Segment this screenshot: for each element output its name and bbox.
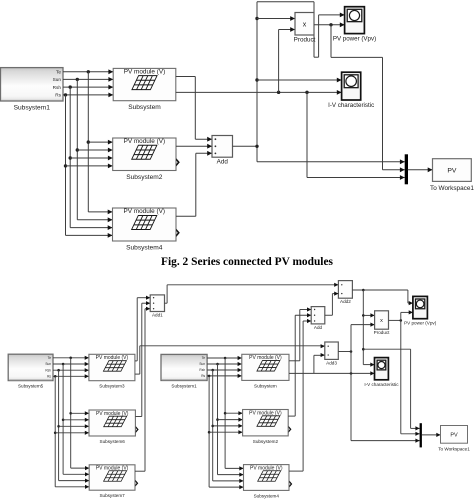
svg-text:Subsystem6: Subsystem6 [100,439,126,444]
wire Add2 output trunk with branches [352,289,413,367]
unconnected out2 port of Subsystem2 [176,158,180,166]
svg-text:I-V characteristic: I-V characteristic [364,382,399,387]
unconnected out2 port of Subsystem2 (lower) [289,426,292,433]
PV module subsystem block Subsystem4 (lower) [244,465,290,499]
source subsystem block Subsystem1 (lower) [161,354,207,388]
wire Subsystem1 out2 to PV modules [63,77,113,222]
svg-text:Product: Product [294,37,316,44]
svg-text:Subsystem4: Subsystem4 [254,493,280,498]
svg-text:Subsystem3: Subsystem3 [99,384,125,389]
product block Product (lower) [374,311,391,335]
wire Mux1 output to To Workspace1 (lower) [422,433,441,437]
wire Subsystem1 out1 to PV modules [63,69,113,214]
svg-text:Rsh: Rsh [53,85,62,90]
wire Subsystem7 out1 to Add1 in3 [135,307,150,472]
svg-text:PV module (V): PV module (V) [124,69,166,76]
svg-text:Fig. 2 Series connected PV mod: Fig. 2 Series connected PV modules [161,256,333,268]
wire Subsystem4 (lower) out1 to Add in3 [289,319,311,471]
svg-text:Add: Add [314,325,323,330]
sum block Add [212,136,233,166]
svg-text:Rsh: Rsh [45,368,51,372]
wire Mux output to To Workspace1 [408,167,433,172]
svg-text:Add3: Add3 [326,360,337,365]
unconnected out2 port of Subsystem4 (lower) [289,481,292,488]
wire Subsystem1 (lower) out1 to right PV modules [207,356,243,471]
svg-text:PV: PV [450,433,458,439]
svg-text:Subsystem5: Subsystem5 [18,384,44,389]
svg-text:Add: Add [217,159,229,166]
svg-text:Te: Te [48,356,52,360]
sum block Add1 [150,295,164,318]
unconnected out2 port of Subsystem6 [136,426,139,433]
wire Subsystem2 out1 to Add in2 [176,144,212,149]
wire branch down to Mux in3 [307,92,405,180]
svg-text:Add2: Add2 [340,299,351,304]
svg-text:Sun: Sun [199,362,205,366]
sum block Add2 [338,281,352,305]
wire Subsystem out2 to I-V characteristic in2 with branches [176,90,342,95]
wire trunk branch to I-V characteristic in1 [257,78,342,83]
mux Mux1 [420,423,422,447]
svg-text:PV module (V): PV module (V) [249,410,282,416]
wire Subsystem5 out2 to left PV modules [53,362,89,477]
svg-text:x: x [303,21,307,28]
wire Subsystem3 out1 to Add1 in1 [135,296,150,361]
wire Subsystem5 out4 to left PV modules [53,374,89,489]
svg-text:Subsystem: Subsystem [128,104,161,111]
wire Subsystem (lower) out2 to Add3 in2 and I-V in2 [289,353,375,376]
svg-text:PV power (Vpv): PV power (Vpv) [404,321,437,326]
svg-text:PV power (Vpv): PV power (Vpv) [333,36,376,43]
svg-text:Subsystem2: Subsystem2 [253,439,279,444]
svg-text:x: x [380,318,383,324]
wire trunk branch to Product in1 [257,16,295,21]
unconnected out2 port of Subsystem7 [135,480,138,487]
sum block Add [311,307,325,330]
PV module subsystem block Subsystem4 [113,208,177,252]
scope block PV power (Vpv) lower [404,296,437,325]
unconnected out2 port of Subsystem4 [176,229,180,237]
mux Mux [405,154,408,184]
scope block I-V characteristic lower [364,358,399,387]
wire Subsystem out1 to Add in1 [176,77,212,142]
wire Subsystem1 out4 to PV modules [63,93,113,238]
wire Add1 output to Add2 in1 [165,283,339,304]
PV module subsystem block Subsystem2 (lower) [243,410,289,444]
wire Subsystem2 (lower) out1 to Add in2 [288,313,311,416]
to-workspace block PV / To Workspace1 [430,159,474,192]
svg-text:To Workspace1: To Workspace1 [438,447,470,452]
svg-text:Subsystem1: Subsystem1 [171,384,197,389]
svg-text:PV module (V): PV module (V) [123,208,165,215]
wire Product output to PV power scope in2 and Mux in2 [314,22,405,172]
svg-text:PV module (V): PV module (V) [96,355,129,361]
svg-text:Add1: Add1 [152,313,163,318]
wire trunk branch to Product in1 [363,313,374,317]
svg-text:Sun: Sun [53,77,62,82]
svg-text:PV: PV [447,168,457,175]
scope block I-V characteristic [328,72,374,109]
source subsystem block Subsystem1 [1,68,64,112]
product block Product [294,13,316,44]
wire trunk branch to Mux1 in1 [363,349,419,430]
svg-text:Subsystem7: Subsystem7 [99,493,125,498]
PV module subsystem block Subsystem2 [113,138,176,181]
wire Subsystem1 (lower) out4 to right PV modules [207,374,243,489]
svg-text:Rsh: Rsh [199,368,205,372]
svg-text:Te: Te [202,356,206,360]
svg-text:Subsystem: Subsystem [254,383,277,388]
PV module subsystem block Subsystem [113,68,176,111]
wire Subsystem1 out3 to PV modules [63,85,113,230]
svg-text:Rs: Rs [55,93,61,98]
wire Add output trunk (vertical x=257) with branches [233,2,345,162]
svg-text:Subsystem4: Subsystem4 [126,245,163,252]
wire branch up to Product in2 [279,27,295,92]
svg-text:Product: Product [374,330,391,335]
svg-text:To Workspace1: To Workspace1 [430,185,474,192]
PV module subsystem block Subsystem7 [89,465,135,498]
svg-text:Te: Te [56,69,61,74]
wire Subsystem (lower) out1 to Add in1 [289,307,311,360]
svg-text:PV module (V): PV module (V) [124,138,166,145]
svg-text:Rs: Rs [201,374,205,378]
wire Subsystem1 (lower) out2 to right PV modules [207,362,243,477]
wire trunk branch to Mux in1 [257,159,405,164]
wire Subsystem1 (lower) out3 to right PV modules [207,368,243,483]
PV module subsystem block Subsystem3 [89,354,135,388]
wire Subsystem4 out1 to Add in3 [176,151,212,216]
wire Subsystem5 out1 to left PV modules [53,356,89,471]
PV module subsystem block Subsystem6 [89,410,135,444]
scope block PV power (Vpv) [333,7,376,43]
svg-text:Rs: Rs [47,374,51,378]
wire Product (lower) output to PV power in2 and Mux1 in2 [389,310,420,436]
svg-text:Subsystem1: Subsystem1 [14,105,51,112]
svg-text:Sun: Sun [45,362,51,366]
PV module subsystem block Subsystem (lower) [242,354,289,388]
wire Subsystem3 out2 to Add3 in1 (long horizontal) [135,344,325,374]
svg-text:I-V characteristic: I-V characteristic [328,102,374,109]
wire Subsystem6 out1 to Add1 in2 [135,301,150,416]
sum block Add3 [325,342,339,365]
svg-text:Subsystem2: Subsystem2 [126,174,163,181]
wire Subsystem5 out3 to left PV modules [53,368,89,483]
wire Add3 output to Product in2, I-V in2 branch and Mux1 in3 [338,323,419,443]
wire Add output to Add2 in2 [325,292,339,316]
source subsystem block Subsystem5 [8,354,53,388]
to-workspace block PV / To Workspace1 (lower) [438,426,470,452]
